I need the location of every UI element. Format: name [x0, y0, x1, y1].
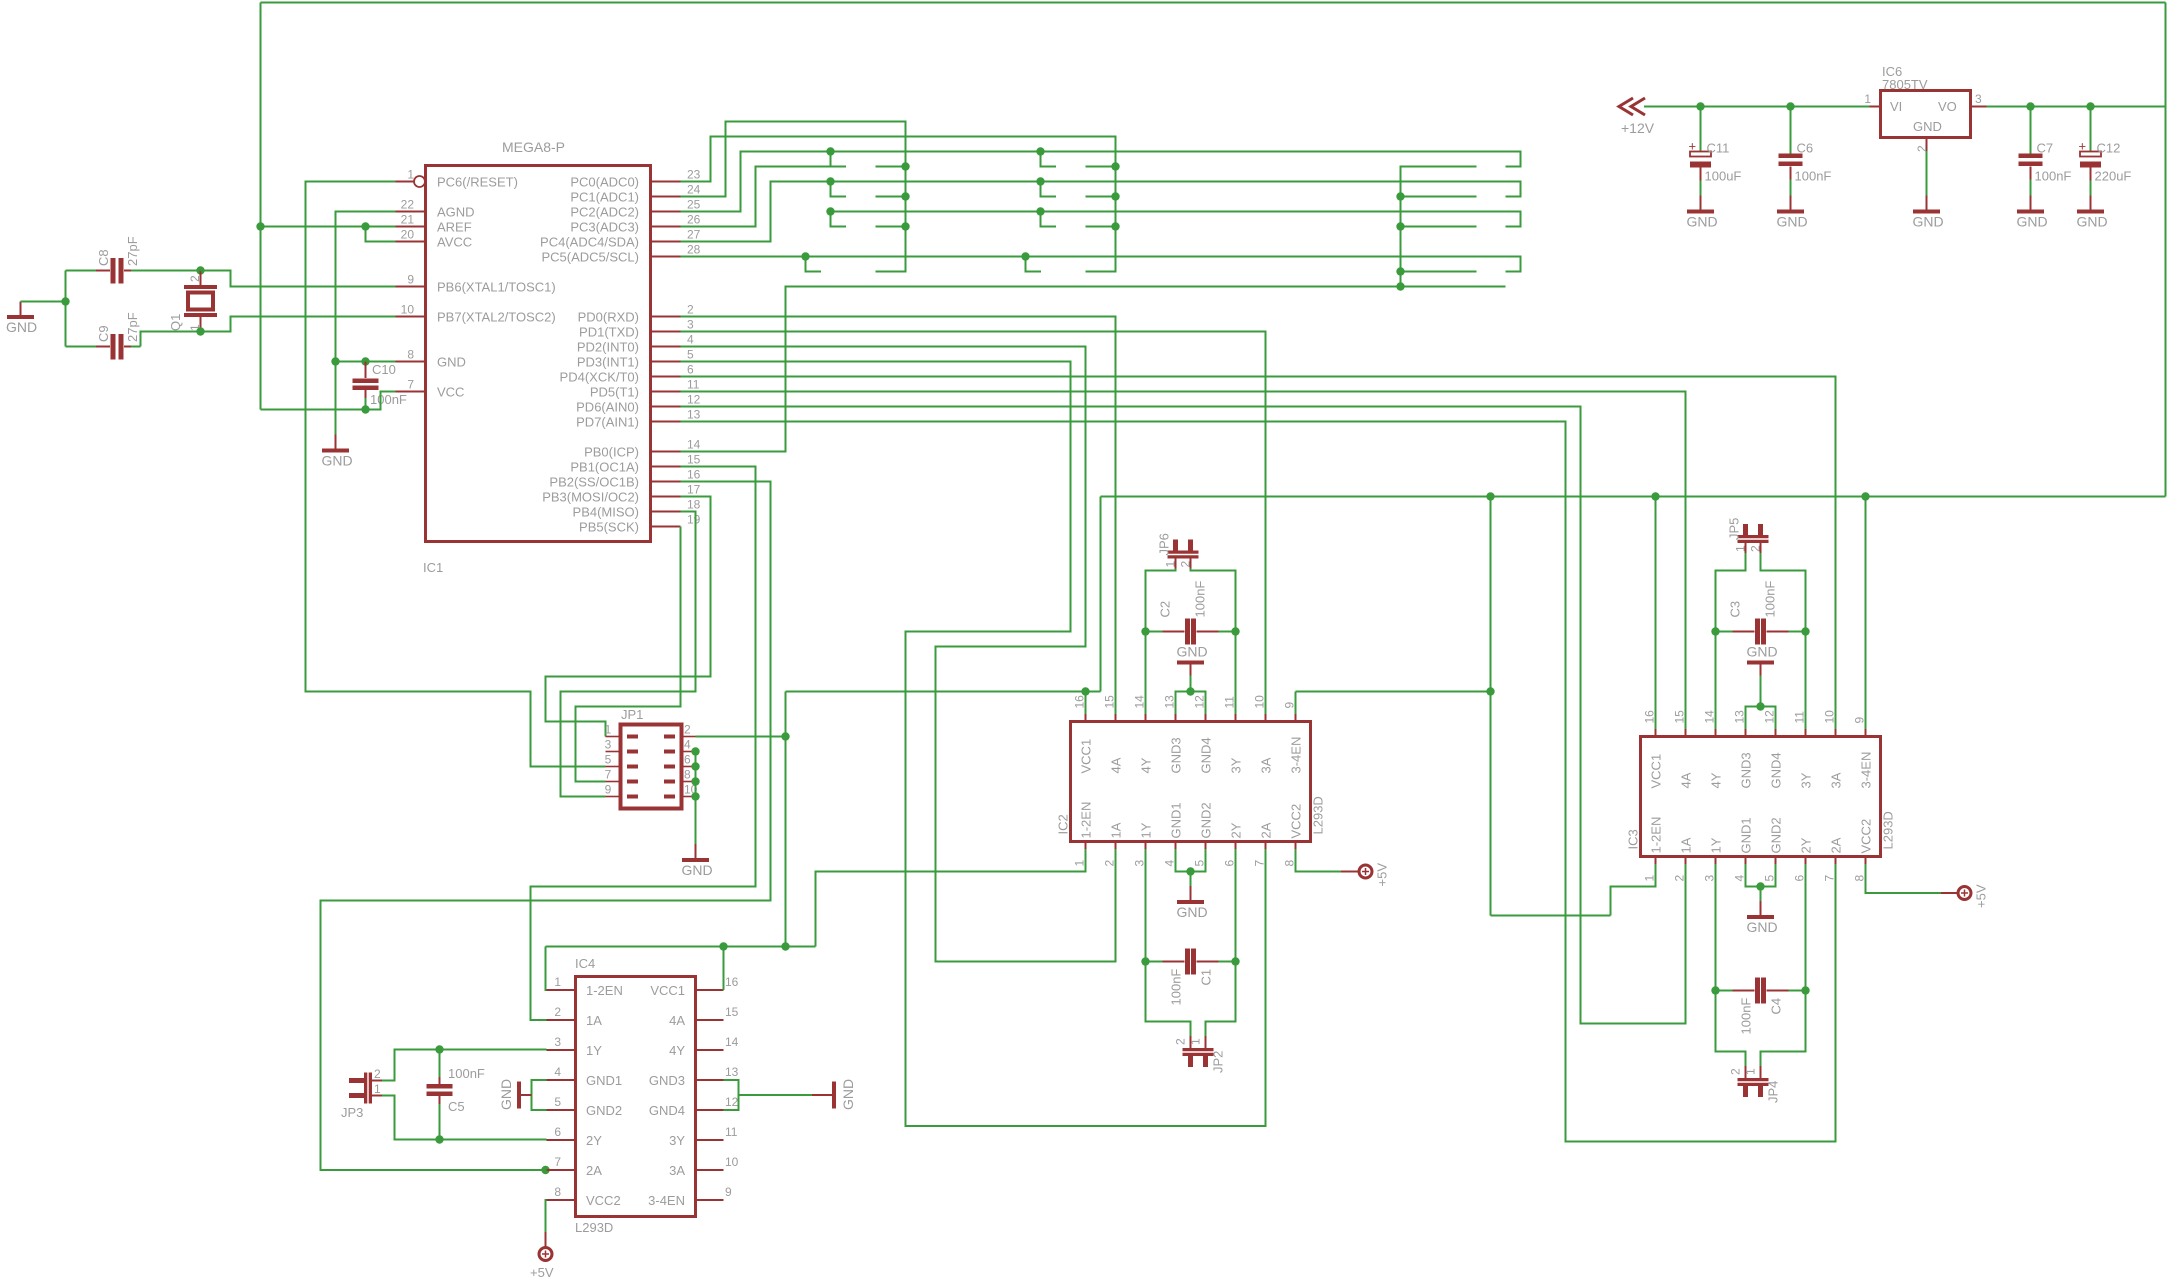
svg-text:1: 1 [1189, 1038, 1203, 1045]
svg-text:9: 9 [1853, 717, 1867, 724]
svg-text:AGND: AGND [437, 205, 475, 220]
svg-text:27pF: 27pF [125, 236, 140, 266]
svg-text:3: 3 [605, 738, 612, 752]
svg-text:L293D: L293D [575, 1220, 613, 1235]
IC4 pin 5 GND2 [547, 1095, 623, 1118]
wire PC0 net [681, 137, 1116, 272]
node junction crystal pin1 [196, 327, 204, 335]
capacitor C10 100nF [353, 362, 407, 410]
svg-text:GND: GND [6, 319, 37, 335]
capacitor C12 [2079, 107, 2132, 196]
wire JP6 pin1 to C2 left [1146, 569, 1176, 632]
IC4 pin 16 VCC1 [650, 975, 738, 998]
node junction 1490 pin9 arm [1486, 687, 1494, 695]
svg-text:4A: 4A [1679, 772, 1694, 788]
svg-text:2: 2 [1179, 561, 1193, 568]
svg-text:14: 14 [725, 1035, 739, 1049]
svg-text:8: 8 [554, 1185, 561, 1199]
wire IC6 GND pin to ground [1926, 151, 1928, 196]
svg-text:PB2(SS/OC1B): PB2(SS/OC1B) [549, 475, 639, 490]
svg-text:100nF: 100nF [1169, 969, 1184, 1006]
svg-text:2A: 2A [586, 1163, 602, 1178]
svg-text:PD2(INT0): PD2(INT0) [577, 340, 639, 355]
svg-text:GND3: GND3 [1169, 737, 1184, 773]
IC1 pin 2 PD0(RXD) [578, 303, 694, 325]
node junction agnd [331, 357, 339, 365]
svg-text:6: 6 [684, 753, 691, 767]
wire IC3 1-2EN feed drop [1490, 692, 1492, 916]
svg-text:100uF: 100uF [1705, 169, 1742, 184]
svg-text:19: 19 [687, 513, 701, 527]
svg-text:11: 11 [725, 1125, 738, 1139]
svg-text:2: 2 [1749, 545, 1763, 552]
svg-text:2: 2 [684, 723, 691, 737]
node junction C3 left [1711, 627, 1719, 635]
node junction C6 on +12V rail [1786, 102, 1794, 110]
svg-text:1: 1 [1734, 545, 1748, 552]
svg-text:1Y: 1Y [1139, 822, 1154, 838]
IC4 pin 13 GND3 [649, 1065, 739, 1088]
IC4 pin 10 3A [669, 1155, 739, 1178]
capacitor C9 27pF [66, 312, 141, 359]
connector JP1 box [621, 707, 682, 809]
JP1 pin 5 [605, 753, 638, 769]
wire PD1 net to IC2 3A [681, 332, 1266, 715]
wire IC2 3-4EN arm [1296, 691, 1491, 693]
node junction IC2 VCC1 [1081, 687, 1089, 695]
IC1 pin 28 PC5(ADC5/SCL) [541, 243, 700, 265]
wire cap left rail [65, 271, 67, 347]
capacitor C4 C4 [1733, 978, 1789, 1035]
wire C4 row left [1716, 990, 1733, 992]
svg-text:JP4: JP4 [1766, 1081, 1781, 1103]
svg-text:22: 22 [401, 198, 415, 212]
svg-text:VI: VI [1890, 99, 1902, 114]
connector JP3 [341, 1067, 382, 1120]
wire IC2 VCC2 to +5V [1296, 849, 1342, 872]
IC1 pin 27 PC4(ADC4/SDA) [540, 228, 701, 250]
svg-text:15: 15 [687, 453, 701, 467]
svg-text:GND: GND [2017, 214, 2048, 230]
IC2 pin 14 4Y [1133, 695, 1154, 774]
node junction C7 on VO rail [2026, 102, 2034, 110]
IC4 pin 2 1A [547, 1005, 603, 1028]
wire gnd to cap rail [21, 301, 66, 303]
wire gnd drop under IC1 [335, 362, 337, 435]
svg-text:2Y: 2Y [1229, 822, 1244, 838]
svg-text:JP5: JP5 [1727, 518, 1742, 540]
svg-text:1: 1 [605, 723, 612, 737]
svg-text:20: 20 [401, 228, 415, 242]
svg-text:PD1(TXD): PD1(TXD) [579, 325, 639, 340]
node junction C1 left [1141, 957, 1149, 965]
svg-text:10: 10 [1823, 710, 1837, 724]
svg-text:18: 18 [687, 498, 701, 512]
svg-text:6: 6 [1793, 875, 1807, 882]
IC1 pin 7 VCC [396, 378, 465, 400]
svg-text:PD5(T1): PD5(T1) [590, 385, 639, 400]
node junction C5 top [435, 1045, 443, 1053]
svg-text:AVCC: AVCC [437, 235, 472, 250]
wire IC2 GND1/GND2 bridge [1176, 849, 1206, 872]
svg-text:25: 25 [687, 198, 701, 212]
svg-text:PB6(XTAL1/TOSC1): PB6(XTAL1/TOSC1) [437, 280, 556, 295]
node junction rail1 row166 [901, 162, 909, 170]
svg-text:Q1: Q1 [168, 314, 183, 331]
wire AVCC jog [366, 227, 396, 242]
wire enable to IC2 1-2EN [816, 849, 1086, 947]
svg-text:4Y: 4Y [669, 1043, 685, 1058]
svg-text:L293D: L293D [1881, 811, 1896, 849]
wire IC3 4Y riser [1715, 632, 1717, 730]
svg-text:3-4EN: 3-4EN [648, 1193, 685, 1208]
wire IC3 VCC2 to +5V [1866, 864, 1942, 893]
svg-text:2: 2 [1915, 145, 1929, 152]
wire PB4 MISO to JP1 pin9 [561, 512, 696, 797]
ground GND left of IC4 [498, 1079, 532, 1110]
IC1 pin 21 AREF [396, 213, 472, 235]
node junction JP1 pin6 [691, 762, 699, 770]
wire PC1 net [681, 122, 906, 272]
wire PD2 net to IC2 1A [681, 347, 1116, 962]
wire comb dash rail2 row196 [1086, 196, 1116, 198]
capacitor C7 [2019, 107, 2072, 196]
wire C3 row left [1716, 631, 1733, 633]
wire RESET net pin1 to JP1 pin5 [306, 182, 606, 767]
IC1 pin 10 PB7(XTAL2/TOSC2) [396, 303, 556, 325]
svg-text:4A: 4A [669, 1013, 685, 1028]
IC4 pin 14 4Y [669, 1035, 739, 1058]
wire comb dash rail1 row226 [876, 226, 906, 228]
svg-text:PD7(AIN1): PD7(AIN1) [576, 415, 639, 430]
svg-text:1: 1 [1073, 860, 1087, 867]
wire IC4 1-2EN riser [546, 947, 547, 991]
svg-text:2Y: 2Y [1799, 837, 1814, 853]
node junction IC3 VCC1 on +5V line [1651, 492, 1659, 500]
wire C3 row right [1789, 631, 1806, 633]
wire pin8 GND to rail [336, 361, 396, 363]
node junction C11 on +12V rail [1696, 102, 1704, 110]
svg-text:4: 4 [687, 333, 694, 347]
wire +5V left vertical to AREF/AVCC/VCC [260, 3, 262, 410]
svg-text:11: 11 [1223, 696, 1237, 709]
svg-text:GND: GND [682, 862, 713, 878]
node junction 830/151 [826, 147, 834, 155]
svg-text:8: 8 [1283, 860, 1297, 867]
ground GND under JP1 [682, 844, 713, 878]
svg-text:2: 2 [188, 275, 202, 282]
supply +5V IC2 [1341, 863, 1390, 887]
node junction JP1 pin10 [691, 792, 699, 800]
wire C1 row left [1146, 961, 1163, 963]
svg-text:4: 4 [684, 738, 691, 752]
svg-text:3Y: 3Y [1799, 772, 1814, 788]
svg-text:IC3: IC3 [1626, 829, 1641, 849]
wire comb drop 830 row226 [831, 212, 847, 227]
svg-text:13: 13 [725, 1065, 739, 1079]
svg-text:7: 7 [554, 1155, 561, 1169]
connector JP6 [1157, 533, 1199, 568]
wire comb dash rail2 row226 [1086, 226, 1116, 228]
IC1 pin 19 PB5(SCK) [579, 513, 701, 535]
IC1 pin 15 PB1(OC1A) [570, 453, 700, 475]
node junction 830/181 [826, 177, 834, 185]
svg-text:GND4: GND4 [1199, 737, 1214, 773]
node junction rail3 row226 [1396, 222, 1404, 230]
wire enable line to IC4 [546, 946, 816, 948]
svg-text:C8: C8 [96, 249, 111, 266]
svg-text:5: 5 [554, 1095, 561, 1109]
capacitor C11 [1689, 107, 1742, 196]
svg-text:16: 16 [725, 975, 739, 989]
svg-text:5: 5 [1193, 860, 1207, 867]
svg-text:C1: C1 [1199, 969, 1214, 986]
capacitor C8 27pF [66, 236, 201, 283]
svg-text:PB4(MISO): PB4(MISO) [573, 505, 639, 520]
IC4 pin 11 3Y [669, 1125, 738, 1148]
svg-text:VCC1: VCC1 [1649, 754, 1664, 789]
svg-text:2A: 2A [1829, 837, 1844, 853]
svg-text:GND2: GND2 [1769, 817, 1784, 853]
IC3 pin 16 VCC1 [1643, 710, 1664, 789]
node junction IC4 VCC1 riser [719, 942, 727, 950]
svg-text:5: 5 [1763, 875, 1777, 882]
svg-text:IC4: IC4 [575, 956, 595, 971]
wire PD5 net to IC3 4A [681, 392, 1686, 730]
node junction C4 left [1711, 986, 1719, 994]
svg-text:4: 4 [1163, 860, 1177, 867]
svg-text:11: 11 [1793, 711, 1807, 724]
IC2 pin 5 GND2 [1193, 802, 1214, 866]
svg-text:12: 12 [687, 393, 701, 407]
ground GND below IC3 [1747, 901, 1778, 935]
svg-text:5: 5 [687, 348, 694, 362]
node junction rail3 row271 [1396, 267, 1404, 275]
node junction C12 on VO rail [2086, 102, 2094, 110]
svg-text:C5: C5 [448, 1099, 465, 1114]
wire IC3 GND1/GND2 bridge [1746, 864, 1776, 887]
IC2 pin 7 2A [1253, 822, 1274, 866]
svg-text:PB0(ICP): PB0(ICP) [584, 445, 639, 460]
svg-text:1: 1 [1643, 875, 1657, 882]
wire IC3 2Y riser down [1805, 864, 1807, 991]
svg-text:21: 21 [401, 213, 415, 227]
wire 1490 riser to IC2 3-4EN arm [1490, 497, 1492, 692]
wire comb drop 1025 row271 [1026, 257, 1042, 272]
svg-text:4Y: 4Y [1709, 772, 1724, 788]
svg-text:5: 5 [605, 753, 612, 767]
wire comb drop 1040 row166 [1041, 152, 1057, 167]
IC2 pin 9 3-4EN [1283, 702, 1304, 774]
IC1 pin 5 PD3(INT1) [577, 348, 694, 370]
node junction AREF rail [256, 222, 264, 230]
svg-text:GND: GND [1687, 214, 1718, 230]
wire +5V top border [261, 2, 2166, 4]
svg-text:10: 10 [401, 303, 415, 317]
node junction IC3 gnd bridge [1756, 702, 1764, 710]
svg-text:C7: C7 [2037, 141, 2054, 156]
wire IC3 3Y riser [1805, 632, 1807, 730]
svg-text:C11: C11 [1707, 141, 1730, 156]
svg-text:1: 1 [1164, 561, 1178, 568]
node junction JP1 pin2 PB0 [781, 732, 789, 740]
svg-text:7: 7 [1823, 875, 1837, 882]
svg-text:3-4EN: 3-4EN [1289, 737, 1304, 774]
capacitor C6 [1779, 107, 1832, 196]
node junction JP1 pin4 [691, 747, 699, 755]
IC2 pin 10 3A [1253, 695, 1274, 774]
IC1 pin 12 PD6(AIN0) [576, 393, 701, 415]
wire AREF to +5V rail [261, 226, 396, 228]
svg-text:4: 4 [1733, 875, 1747, 882]
svg-text:VCC2: VCC2 [586, 1193, 621, 1208]
IC3 pin 9 3-4EN [1853, 717, 1874, 789]
wire C2 row right [1219, 631, 1236, 633]
svg-text:4: 4 [554, 1065, 561, 1079]
IC1 pin 24 PC1(ADC1) [570, 183, 700, 205]
wire comb rail3 [1401, 167, 1477, 287]
IC1 pin 9 PB6(XTAL1/TOSC1) [396, 273, 556, 295]
svg-text:27pF: 27pF [125, 312, 140, 342]
node junction C1 right [1231, 957, 1239, 965]
IC4 pin 4 GND1 [547, 1065, 623, 1088]
svg-text:6: 6 [554, 1125, 561, 1139]
capacitor C5 100nF [427, 1050, 485, 1140]
svg-text:PC3(ADC3): PC3(ADC3) [570, 220, 639, 235]
node junction 1040/181 [1036, 177, 1044, 185]
connector JP5 [1727, 518, 1769, 553]
wire JP3 pin2 to 1Y [382, 1050, 547, 1081]
ground GND under C11 [1687, 196, 1718, 230]
svg-text:AREF: AREF [437, 220, 472, 235]
svg-text:2: 2 [687, 303, 694, 317]
svg-text:GND: GND [2077, 214, 2108, 230]
JP1 pin 4 [664, 738, 696, 754]
svg-text:VCC2: VCC2 [1289, 804, 1304, 839]
svg-text:28: 28 [687, 243, 701, 257]
ground GND right of IC4 [812, 1079, 856, 1110]
wire IC2 4Y riser [1145, 632, 1147, 715]
svg-text:PD0(RXD): PD0(RXD) [578, 310, 639, 325]
JP1 pin 6 [664, 753, 696, 769]
IC1 pin 20 AVCC [396, 228, 473, 250]
svg-text:27: 27 [687, 228, 701, 242]
svg-text:GND2: GND2 [1199, 802, 1214, 838]
svg-text:13: 13 [687, 408, 701, 422]
ground GND under C7 [2017, 196, 2048, 230]
svg-text:2: 2 [1673, 875, 1687, 882]
wire comb drop 830 row166 [831, 152, 847, 167]
op-amp U1 -- IC1 MEGA8-P microcontroller box [423, 139, 651, 575]
svg-text:3: 3 [1133, 860, 1147, 867]
IC1 pin 16 PB2(SS/OC1B) [549, 468, 700, 490]
node junction PB0 trunk bottom [781, 942, 789, 950]
svg-text:GND: GND [1177, 904, 1208, 920]
JP1 pin 7 [605, 768, 638, 784]
wire comb dash rail3 row271 [1401, 271, 1477, 273]
svg-text:JP2: JP2 [1211, 1051, 1226, 1073]
wire enable riser to 3-4EN line [1100, 497, 1102, 692]
svg-text:14: 14 [1133, 695, 1147, 709]
node junction C4 right [1801, 986, 1809, 994]
JP1 pin 1 [605, 723, 638, 739]
svg-text:1Y: 1Y [1709, 837, 1724, 853]
svg-text:8: 8 [407, 348, 414, 362]
node junction C10 bottom [361, 405, 369, 413]
IC3 pin 7 2A [1823, 837, 1844, 881]
connector JP2 [1174, 1036, 1226, 1073]
wire JP5 pin1 to C3 left [1716, 553, 1746, 632]
JP1 pin 8 [664, 768, 696, 784]
svg-text:PC4(ADC4/SDA): PC4(ADC4/SDA) [540, 235, 639, 250]
op-amp IC4 L293D box [575, 956, 696, 1235]
wire 3-4EN +5V line [1101, 496, 2166, 498]
svg-text:2: 2 [554, 1005, 561, 1019]
svg-text:C2: C2 [1158, 601, 1173, 618]
wire comb dash rail1 row196 [876, 196, 906, 198]
ground GND above IC2 [1177, 644, 1208, 692]
node junction IC4 2A wire joint [541, 1166, 549, 1174]
ground GND crystal area [6, 302, 37, 336]
IC3 pin 10 3A [1823, 710, 1844, 789]
IC1 pin 23 PC0(ADC0) [570, 168, 700, 190]
wire PB0 net riser [681, 287, 1506, 452]
ground GND under IC1 [322, 435, 353, 469]
svg-text:8: 8 [684, 768, 691, 782]
svg-text:C12: C12 [2097, 141, 2121, 156]
svg-text:3A: 3A [1259, 757, 1274, 773]
IC2 pin 3 1Y [1133, 822, 1154, 866]
IC1 pin 17 PB3(MOSI/OC2) [542, 483, 700, 505]
IC2 pin 8 VCC2 [1283, 804, 1304, 867]
IC3 pin 3 1Y [1703, 837, 1724, 881]
svg-text:6: 6 [1223, 860, 1237, 867]
svg-text:L293D: L293D [1311, 796, 1326, 834]
svg-text:7805TV: 7805TV [1882, 77, 1928, 92]
svg-text:+5V: +5V [530, 1265, 554, 1280]
svg-text:PB3(MOSI/OC2): PB3(MOSI/OC2) [542, 490, 639, 505]
svg-text:16: 16 [687, 468, 701, 482]
svg-text:PD6(AIN0): PD6(AIN0) [576, 400, 639, 415]
svg-text:PC5(ADC5/SCL): PC5(ADC5/SCL) [541, 250, 639, 265]
svg-text:2: 2 [1103, 860, 1117, 867]
IC1 pin 6 PD4(XCK/T0) [560, 363, 694, 385]
connector JP4 [1729, 1066, 1781, 1103]
svg-text:C3: C3 [1728, 601, 1743, 618]
svg-text:100nF: 100nF [448, 1066, 485, 1081]
wire PC4 net [681, 182, 1521, 242]
wire AGND pin22 down to GND net [336, 212, 396, 362]
wire IC2 3Y riser [1235, 632, 1237, 715]
svg-text:C4: C4 [1769, 998, 1784, 1015]
ground GND under IC6 [1913, 196, 1944, 230]
supply +5V IC4 [530, 1232, 554, 1280]
svg-text:24: 24 [687, 183, 701, 197]
IC4 pin 7 2A [547, 1155, 603, 1178]
IC1 pin 26 PC3(ADC3) [570, 213, 700, 235]
wire IC4 VCC1 riser [723, 947, 725, 991]
wire XTAL2 net to PB7 [201, 317, 396, 332]
svg-text:13: 13 [1163, 695, 1177, 709]
wire IC3 GND3/GND4 bridge [1746, 707, 1776, 730]
svg-text:14: 14 [687, 438, 701, 452]
IC3 pin 11 3Y [1793, 711, 1814, 789]
wire IC3 1-2EN riser [1611, 864, 1656, 916]
wire IC4 GND1/GND2 bridge [532, 1080, 547, 1110]
svg-text:+12V: +12V [1621, 120, 1655, 136]
wire IC3 1-2EN feed [1491, 915, 1611, 917]
svg-text:16: 16 [1073, 695, 1087, 709]
